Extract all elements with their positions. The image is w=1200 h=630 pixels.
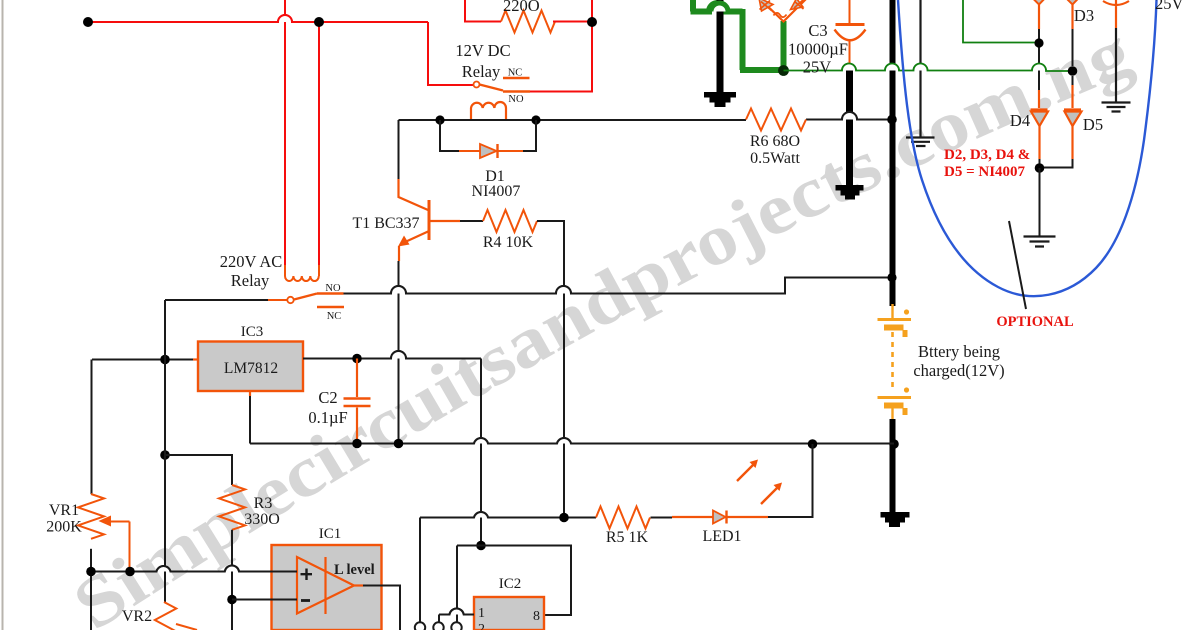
relay 220V AC contacts <box>268 294 344 308</box>
svg-text:D5 = NI4007: D5 = NI4007 <box>944 164 1026 180</box>
diode D4 <box>1031 110 1049 160</box>
svg-text:NO: NO <box>325 283 341 294</box>
capacitor C3 <box>835 0 866 67</box>
wire IC3 output line with hop <box>303 351 481 358</box>
capacitor C2 <box>344 359 371 444</box>
wire red 12V relay branch <box>428 22 473 85</box>
plus input rail with hops <box>91 565 297 571</box>
wire 12V rail to R5 line <box>420 512 596 518</box>
svg-text:NI4007: NI4007 <box>472 183 521 200</box>
wire red top horizontal with hop <box>88 15 428 22</box>
wire IC2 supply line <box>457 546 571 616</box>
svg-text:25V: 25V <box>803 58 832 77</box>
wire R3 down to minus input (hops plus line) <box>231 530 233 600</box>
ground (thick, battery negative) <box>881 512 910 527</box>
diode D1 loop wires <box>440 120 536 151</box>
capacitor plate (cut off, top right) <box>1103 0 1129 28</box>
wire R3 column below to bottom edge <box>231 600 233 630</box>
svg-text:NO: NO <box>508 94 524 105</box>
VR1 wiper arrow <box>99 516 130 570</box>
node red junction <box>314 17 324 27</box>
pointer line to OPTIONAL <box>1009 221 1026 309</box>
svg-text:IC3: IC3 <box>241 324 264 340</box>
diode D5 <box>1064 110 1082 160</box>
wire VR1 bottom to plus rail <box>90 549 92 572</box>
svg-text:2: 2 <box>478 622 485 630</box>
battery being charged (12V) <box>878 304 912 421</box>
diode D2 column <box>1029 0 1050 108</box>
relay 12V DC contacts <box>474 78 531 92</box>
blue optional loop <box>898 0 1157 296</box>
ground (thick, under transformer center tap) <box>704 0 736 107</box>
node T1 emitter / ground rail <box>394 439 404 449</box>
ground (thin, right column) <box>1102 28 1131 112</box>
svg-text:12V DC: 12V DC <box>455 41 510 60</box>
node coil right <box>531 115 540 124</box>
svg-text:R3: R3 <box>254 495 273 512</box>
svg-text:220V AC: 220V AC <box>220 252 283 271</box>
wire R5 to LED <box>651 517 673 519</box>
svg-text:D3: D3 <box>1074 6 1094 25</box>
wire base to R4 <box>460 220 483 222</box>
wire red vertical to NO contact <box>530 0 592 92</box>
relay coil line (T1 collector rail) <box>399 112 893 120</box>
wire IC2 pin1 with hop <box>439 608 474 614</box>
wire thick battery positive column <box>890 0 896 306</box>
ground (thin, D4/D5) <box>1024 237 1056 247</box>
wire NO to battery line (charging rail) with hops <box>344 278 893 294</box>
resistor R3 330O <box>219 485 245 530</box>
wire resistor to node <box>553 21 592 23</box>
node 220ohm/relay junction <box>587 17 597 27</box>
svg-text:200K: 200K <box>46 519 82 536</box>
svg-text:C3: C3 <box>808 21 827 40</box>
svg-text:LED1: LED1 <box>702 528 741 545</box>
wire green branch to D2 column <box>963 0 1039 43</box>
variable resistor VR2 <box>155 602 177 630</box>
wire to R3 <box>165 455 232 485</box>
svg-text:VR1: VR1 <box>49 502 79 519</box>
wire R4 to IC2 output column <box>537 221 564 518</box>
svg-text:D2, D3, D4 &: D2, D3, D4 & <box>944 147 1030 163</box>
svg-text:1: 1 <box>478 606 485 621</box>
svg-text:Relay: Relay <box>462 62 501 81</box>
coil 12V relay <box>471 102 506 119</box>
svg-text:T1 BC337: T1 BC337 <box>352 215 419 232</box>
node LED branch / ground rail <box>808 439 818 449</box>
wire to optional diode ground <box>1039 168 1041 236</box>
wire 220V relay left column down through VR2 <box>164 300 166 602</box>
IC3 regulator box <box>198 342 303 392</box>
node R3 branch <box>160 450 170 460</box>
wire 12V column down to R5 node (hops ground rail) <box>480 359 482 546</box>
svg-text:L level: L level <box>334 562 375 578</box>
variable resistor VR1 200K <box>78 494 104 539</box>
svg-text:0.5Watt: 0.5Watt <box>750 150 800 167</box>
svg-text:25V: 25V <box>1155 0 1184 13</box>
wire red vertical left (to 220V relay coil) <box>284 0 286 267</box>
op-amp U IC1 <box>297 557 363 614</box>
diode D1 <box>459 144 523 158</box>
wire op-amp output down <box>363 586 400 630</box>
wire R5-line left branch down to terminal <box>419 518 421 623</box>
svg-text:NC: NC <box>327 311 342 322</box>
wire minus input to op-amp <box>232 599 297 601</box>
wire down from supply corner to terminal <box>456 546 458 623</box>
LED LED1 <box>672 460 782 524</box>
wire hop arches (white masked) <box>157 3 1047 615</box>
node battery / ground rail <box>889 439 899 449</box>
svg-text:OPTIONAL: OPTIONAL <box>996 314 1074 330</box>
ground (thin, left of D2 column) <box>906 0 935 146</box>
node R4 column / R5 line <box>559 513 569 523</box>
wire T1 emitter down to ground rail <box>398 261 400 444</box>
svg-text:330O: 330O <box>244 511 280 528</box>
resistor 220O <box>501 11 555 33</box>
node R6 to battery line <box>887 115 897 125</box>
node C2 ground <box>352 439 362 449</box>
ground (thick, C3 negative) <box>836 64 864 200</box>
svg-text:R6 68O: R6 68O <box>750 133 800 150</box>
wire thick battery negative column <box>890 419 896 512</box>
svg-text:R5 1K: R5 1K <box>606 529 649 546</box>
wire D5 anode joining D4 <box>1040 159 1073 168</box>
svg-text:IC1: IC1 <box>319 526 342 542</box>
ground rail (bottom) with hops <box>250 438 894 444</box>
IC2 timer box <box>474 597 544 630</box>
wire op-amp input stubs inside box <box>270 572 297 600</box>
node VR1 wiper junction <box>125 567 135 577</box>
svg-text:VR2: VR2 <box>122 608 152 625</box>
resistor R6 68O <box>746 109 806 131</box>
svg-text:C2: C2 <box>318 388 337 407</box>
opamp minus sign <box>301 599 310 602</box>
wire D4 anode to common node <box>1039 159 1041 168</box>
opamp plus sign <box>301 569 313 581</box>
IC1 comparator box <box>272 545 382 630</box>
bridge rectifier (bottom half) <box>758 0 808 22</box>
node coil left <box>435 115 444 124</box>
wire 220V relay pivot to left column <box>165 299 268 301</box>
wire VR1 column to bottom edge <box>90 572 92 630</box>
node VR1 bottom <box>86 567 96 577</box>
svg-text:NC: NC <box>508 68 523 79</box>
svg-text:8: 8 <box>533 609 540 624</box>
svg-text:D4: D4 <box>1010 111 1030 130</box>
wire red vertical 2 (to 220V relay coil) <box>318 22 320 267</box>
terminal circles at bottom edge <box>415 622 462 630</box>
svg-text:10000µF: 10000µF <box>788 40 848 59</box>
wire thick green transformer/bridge <box>691 0 784 70</box>
wire IC3 ground pin to rail <box>249 391 251 396</box>
wire left column from relay pivot <box>164 300 166 360</box>
wire IC3 input line <box>92 360 194 495</box>
svg-text:IC2: IC2 <box>499 576 522 592</box>
VR2 wiper line (cut) <box>176 624 197 630</box>
transistor T1 BC337 <box>398 120 460 261</box>
node 12V col / IC2 supply <box>476 541 486 551</box>
node junction NO-rail/battery <box>887 273 896 282</box>
svg-text:R4 10K: R4 10K <box>483 234 534 251</box>
svg-text:220O: 220O <box>503 0 540 15</box>
svg-text:LM7812: LM7812 <box>224 360 278 377</box>
coil 220V AC relay <box>285 265 319 281</box>
node red terminal left <box>83 17 93 27</box>
svg-text:D5: D5 <box>1083 115 1103 134</box>
wire pin1 branch down <box>438 615 440 623</box>
wire 220ohm resistor feed <box>465 0 501 22</box>
frame left border <box>2 0 4 630</box>
svg-text:0.1µF: 0.1µF <box>308 408 347 427</box>
wire LED to ground rail <box>768 444 813 517</box>
resistor R4 10K <box>483 210 537 232</box>
node minus input <box>227 595 237 605</box>
diode D3 column <box>1062 0 1083 108</box>
svg-text:Relay: Relay <box>231 271 270 290</box>
node IC3 output / C2 <box>352 354 362 364</box>
svg-text:charged(12V): charged(12V) <box>913 361 1004 380</box>
svg-text:Bttery being: Bttery being <box>918 342 1000 361</box>
node bridge output <box>778 65 789 76</box>
node IC3 input / left column <box>160 355 170 365</box>
wire green DC bus with hops <box>784 64 1073 71</box>
node D4/D5 common <box>1035 163 1045 173</box>
resistor R5 1K <box>596 507 650 529</box>
wire left column to VR1/R3 branch node <box>164 360 166 456</box>
